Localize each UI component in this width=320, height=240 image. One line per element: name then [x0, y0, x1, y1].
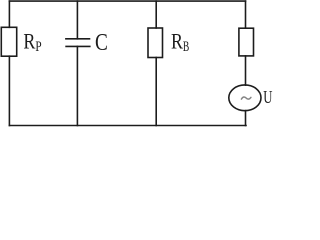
capacitor C bottom plate — [66, 45, 90, 47]
resistor RB — [148, 28, 163, 58]
svg-text:B: B — [183, 38, 189, 55]
svg-text:P: P — [35, 37, 41, 54]
wire capacitor branch lower — [76, 46, 78, 125]
source U circle — [229, 85, 261, 111]
wire right branch upper — [245, 1, 247, 28]
capacitor C top plate — [66, 38, 90, 40]
svg-text:C: C — [95, 29, 108, 56]
wire bottom rail — [9, 125, 246, 127]
wire capacitor branch upper — [76, 1, 78, 39]
wire right branch lower — [245, 111, 247, 126]
source U tilde — [241, 97, 251, 99]
wire left branch lower — [8, 56, 10, 125]
wire top rail — [9, 0, 245, 2]
resistor right (unlabeled) — [239, 28, 254, 56]
svg-text:R: R — [23, 30, 35, 54]
svg-text:U: U — [263, 88, 272, 107]
wire RB branch upper — [155, 1, 157, 28]
svg-text:R: R — [171, 30, 183, 54]
wire RB branch lower — [155, 58, 157, 126]
wire right branch middle — [245, 56, 247, 85]
resistor RP — [1, 27, 16, 56]
wire left branch upper — [8, 1, 10, 27]
